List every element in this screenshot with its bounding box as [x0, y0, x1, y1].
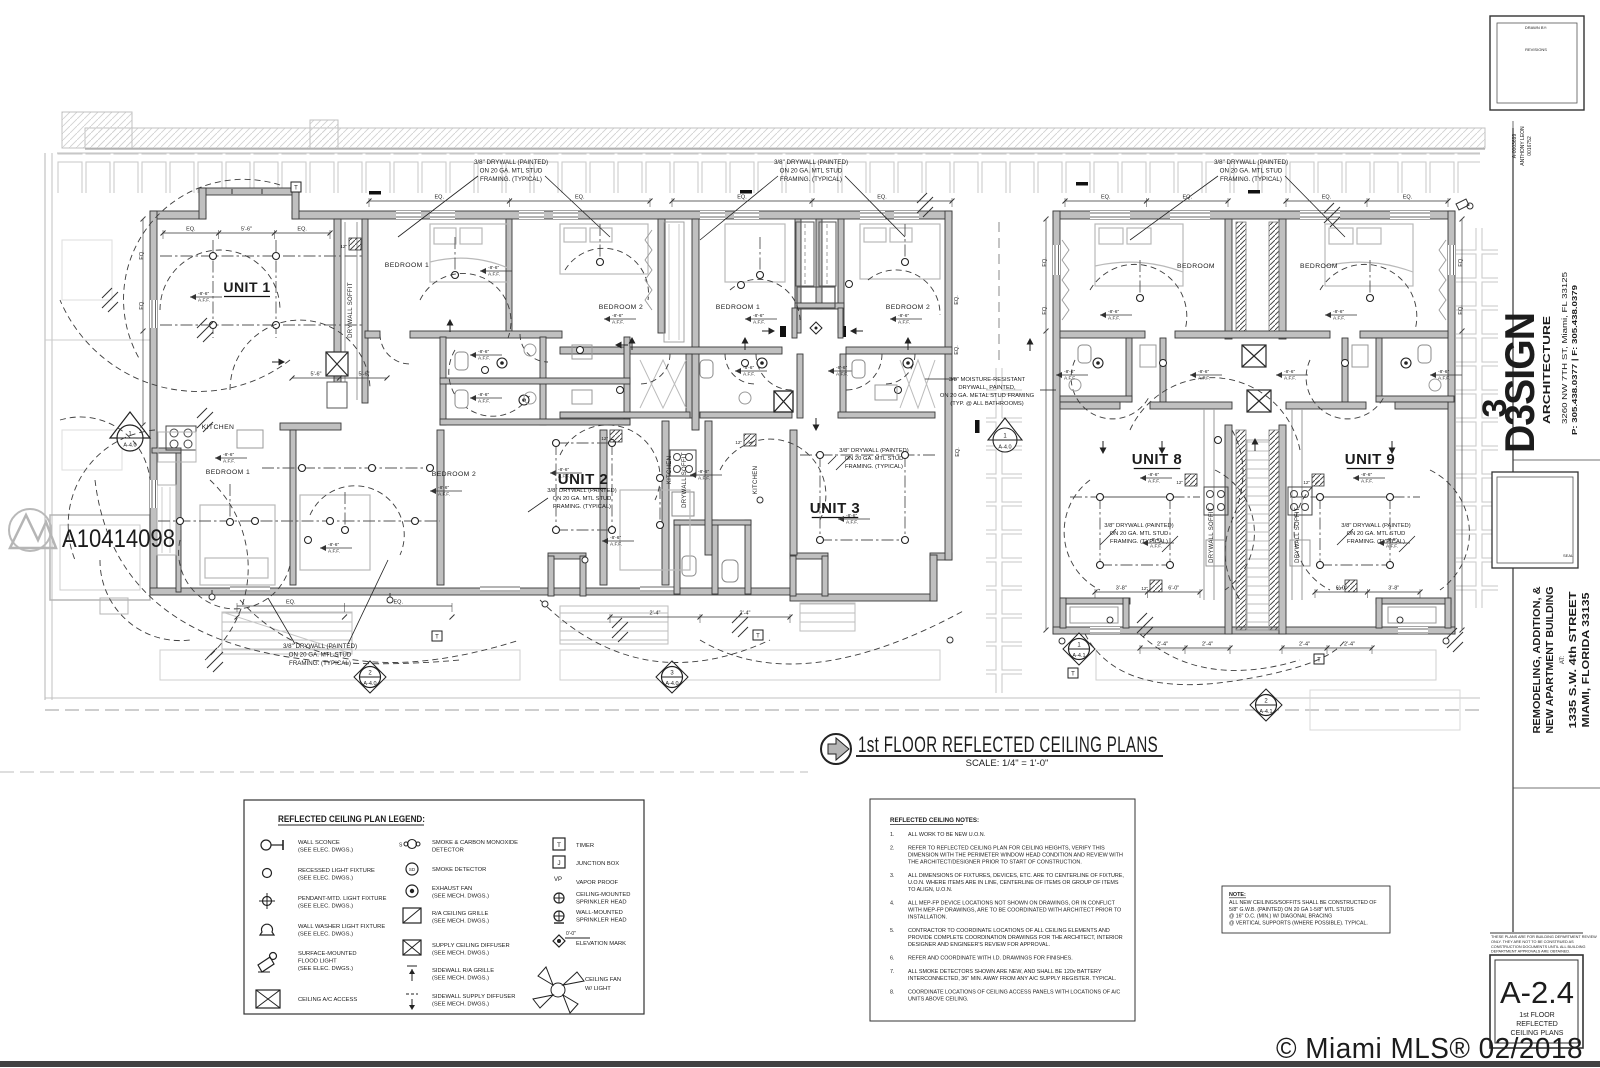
ceiling arc [1064, 480, 1100, 590]
svg-text:3'-8": 3'-8" [1116, 586, 1127, 592]
svg-text:ALL SMOKE DETECTORS SHOWN ARE: ALL SMOKE DETECTORS SHOWN ARE NEW, AND S… [908, 969, 1102, 975]
svg-text:12": 12" [1141, 586, 1148, 591]
ceiling grid unit1 kitchen [158, 520, 440, 522]
svg-text:CEILING-MOUNTED: CEILING-MOUNTED [576, 892, 630, 898]
svg-text:PENDANT-MTD. LIGHT FIXTURE: PENDANT-MTD. LIGHT FIXTURE [298, 896, 387, 902]
svg-text:6'-0": 6'-0" [1168, 586, 1179, 592]
svg-text:-8'-6": -8'-6" [223, 452, 234, 458]
svg-text:U.O.N. WHERE ITEMS ARE IN LIN: U.O.N. WHERE ITEMS ARE IN LINE, CENTERLI… [908, 880, 1119, 886]
svg-text:A.F.F.: A.F.F. [478, 356, 490, 362]
svg-text:A.F.F.: A.F.F. [846, 520, 858, 526]
door swing arc [640, 354, 670, 384]
fan fixture mark [197, 318, 213, 342]
AFF height marker [470, 354, 502, 356]
svg-text:-8'-6": -8'-6" [198, 291, 209, 297]
legend supply diffuser [403, 940, 421, 955]
timer box T [1068, 668, 1078, 678]
svg-text:(SEE ELEC. DWGS.): (SEE ELEC. DWGS.) [298, 932, 353, 938]
wall tick [1076, 182, 1088, 186]
ceiling arc [230, 320, 370, 390]
interior wall bedroom divider [506, 219, 512, 333]
right building right wall [1448, 211, 1455, 634]
svg-text:KITCHEN: KITCHEN [753, 466, 759, 494]
svg-text:A.F.F.: A.F.F. [1148, 479, 1160, 485]
fan fixture mark [1137, 613, 1153, 637]
arc below left bldg 3 [540, 600, 770, 663]
wall tick [740, 190, 752, 194]
svg-text:NOTE:: NOTE: [1229, 892, 1246, 898]
svg-text:-8'-6": -8'-6" [1150, 537, 1161, 543]
svg-text:-8'-6": -8'-6" [836, 365, 847, 371]
closet bottom-left bedroom [176, 450, 181, 592]
bottom bath walls unit3 [674, 520, 680, 594]
pendant fixture [659, 487, 661, 525]
fan fixture mark [917, 193, 933, 217]
pendant fixture [1139, 260, 1141, 298]
vertical dim right bldg left [1045, 219, 1047, 630]
ceiling arc [449, 350, 530, 416]
svg-text:J: J [557, 860, 560, 867]
svg-text:A.F.F.: A.F.F. [1150, 544, 1162, 550]
legend recessed light [263, 869, 272, 878]
svg-text:EQ.: EQ. [297, 227, 307, 233]
svg-text:3/8" MOISTURE-RESISTANT: 3/8" MOISTURE-RESISTANT [949, 377, 1026, 383]
register arrow h [762, 330, 770, 332]
svg-text:SD: SD [409, 867, 416, 872]
LEGEND [244, 800, 644, 1014]
svg-text:AT:: AT: [1560, 656, 1566, 665]
bath walls left unit [1126, 338, 1132, 402]
beds light top row [200, 224, 940, 585]
svg-text:A.F.F.: A.F.F. [488, 272, 500, 278]
AFF height marker [470, 397, 502, 399]
legend ceiling sprinkler [554, 893, 564, 903]
site chimney bump [62, 112, 132, 148]
svg-text:5'-6": 5'-6" [241, 227, 252, 233]
AFF height marker [190, 296, 222, 298]
ceiling arc [1430, 470, 1469, 590]
register arrow [815, 418, 817, 426]
corridor walls [1225, 219, 1232, 339]
svg-text:REFLECTED CEILING PLAN LEGEND:: REFLECTED CEILING PLAN LEGEND: [278, 814, 425, 824]
svg-text:BEDROOM 1: BEDROOM 1 [716, 304, 760, 311]
svg-text:-8'-6": -8'-6" [1284, 369, 1295, 375]
svg-text:-8'-6": -8'-6" [698, 469, 709, 475]
wall left-building left [150, 211, 157, 592]
dimension line top left bldg [369, 200, 650, 202]
svg-text:SPRINKLER HEAD: SPRINKLER HEAD [576, 900, 627, 906]
stoves kitchens [1204, 487, 1312, 566]
AFF height marker [1430, 374, 1462, 376]
AFF height marker [320, 547, 352, 549]
soffit hatch mark [744, 434, 756, 446]
svg-text:BEDROOM 1: BEDROOM 1 [206, 469, 250, 476]
svg-text:5.: 5. [890, 928, 895, 934]
svg-text:6.: 6. [890, 956, 895, 962]
svg-text:EQ.: EQ. [1322, 195, 1332, 201]
svg-text:FRAMING. (TYPICAL): FRAMING. (TYPICAL) [289, 660, 351, 667]
svg-text:(SEE ELEC. DWGS.): (SEE ELEC. DWGS.) [298, 876, 353, 882]
legend junction box [553, 856, 565, 868]
svg-text:FRAMING. (TYPICAL): FRAMING. (TYPICAL) [1220, 176, 1282, 183]
logo circle [9, 509, 51, 551]
smoke detector [657, 475, 664, 482]
faint left fragments [62, 240, 112, 300]
wall tick [369, 191, 381, 195]
window gaps top wall [230, 211, 919, 592]
svg-text:3.: 3. [890, 873, 895, 879]
svg-text:T: T [756, 634, 760, 640]
legend wall washer [260, 924, 274, 935]
svg-text:2.: 2. [890, 846, 895, 852]
exhaust fan [903, 358, 913, 368]
svg-text:(SEE MECH. DWGS.): (SEE MECH. DWGS.) [432, 951, 489, 957]
svg-text:A.F.F.: A.F.F. [898, 320, 910, 326]
pendant fixture [759, 237, 761, 275]
svg-text:(SEE ELEC. DWGS.): (SEE ELEC. DWGS.) [298, 848, 353, 854]
svg-text:-8'-6": -8'-6" [1198, 369, 1209, 375]
exhaust fan [1401, 358, 1411, 368]
AFF height marker [430, 490, 462, 492]
svg-text:A-4.1: A-4.1 [1259, 709, 1272, 715]
svg-text:ARCHITECTURE: ARCHITECTURE [1541, 316, 1553, 424]
svg-text:3/8" DRYWALL (PAINTED): 3/8" DRYWALL (PAINTED) [1104, 523, 1173, 529]
soffit hatch mark [349, 238, 361, 250]
smoke detector [1342, 360, 1349, 367]
section marker 3/A-4.0 [656, 661, 688, 693]
svg-text:-8'-6": -8'-6" [1108, 309, 1119, 315]
svg-text:ON 20 GA. MTL STUD: ON 20 GA. MTL STUD [845, 456, 904, 462]
svg-text:(SEE MECH. DWGS.): (SEE MECH. DWGS.) [432, 976, 489, 982]
svg-text:-8'-6": -8'-6" [488, 265, 499, 271]
legend ceiling fan [533, 967, 584, 1013]
svg-text:A.F.F.: A.F.F. [610, 542, 622, 548]
fan fixture mark [207, 648, 223, 672]
svg-text:T: T [1071, 672, 1075, 678]
parking row top [57, 153, 1480, 193]
register arrow [1254, 443, 1256, 451]
svg-text:WITH MEP-FP DRAWINGS, ARE TO B: WITH MEP-FP DRAWINGS, ARE TO BE COORDINA… [908, 908, 1121, 914]
svg-text:-8'-6": -8'-6" [478, 392, 489, 398]
svg-text:-8'-6": -8'-6" [328, 542, 339, 548]
fan fixture mark [197, 408, 213, 432]
AFF height marker [1378, 542, 1410, 544]
fan fixture mark [1324, 203, 1340, 227]
small note box [1222, 886, 1390, 933]
soffit hatch mark [1150, 580, 1162, 592]
svg-text:UNIT 9: UNIT 9 [1345, 451, 1396, 468]
ceiling arc [720, 439, 826, 520]
svg-text:DRAWN BY:: DRAWN BY: [1525, 25, 1547, 30]
svg-text:3/8" DRYWALL (PAINTED): 3/8" DRYWALL (PAINTED) [474, 159, 548, 166]
svg-text:ONLY. THEY ARE NOT TO BE CONS: ONLY. THEY ARE NOT TO BE CONSTRUED AS [1491, 940, 1574, 944]
unit1 bottom wall [280, 423, 341, 430]
svg-text:EQ.: EQ. [1042, 257, 1048, 267]
timer box T [753, 630, 763, 640]
bathtub box [327, 382, 347, 408]
svg-text:REMODELING, ADDITION, &: REMODELING, ADDITION, & [1532, 587, 1543, 734]
svg-text:© Miami MLS® 02/2018: © Miami MLS® 02/2018 [1276, 1033, 1583, 1065]
left site boundary lines [44, 153, 46, 700]
svg-text:ALL DIMENSIONS OF FIXTURES, DE: ALL DIMENSIONS OF FIXTURES, DEVICES, ETC… [908, 873, 1124, 879]
svg-text:SIDEWALL R/A GRILLE: SIDEWALL R/A GRILLE [432, 968, 494, 974]
vertical dim left bldg [142, 219, 144, 425]
svg-text:12": 12" [1303, 480, 1310, 485]
register arrow [631, 342, 633, 350]
fine print [1490, 932, 1583, 934]
svg-text:REFLECTED: REFLECTED [1516, 1021, 1558, 1028]
svg-text:THE ARCHITECT/DESIGNER PRIOR T: THE ARCHITECT/DESIGNER PRIOR TO START OF… [908, 860, 1082, 866]
site arc left 3 [68, 430, 155, 560]
right building bottom wall [1053, 627, 1455, 634]
porch left [1060, 598, 1130, 604]
beds right building [1095, 224, 1413, 286]
pendant fixture [344, 492, 346, 530]
svg-text:A.F.F.: A.F.F. [836, 372, 848, 378]
soffit hatch mark [1312, 474, 1324, 486]
svg-text:EQ.: EQ. [139, 300, 145, 310]
NOTES [870, 799, 1135, 1021]
bath band fixture line [262, 467, 430, 469]
AFF height marker [550, 472, 582, 474]
svg-text:@ 16" O.C. (MIN.) W/ DIAGONAL: @ 16" O.C. (MIN.) W/ DIAGONAL BRACING [1229, 914, 1332, 920]
svg-text:DRYWALL, PAINTED,: DRYWALL, PAINTED, [958, 385, 1016, 391]
svg-text:VP: VP [554, 877, 562, 883]
svg-text:A-4.0: A-4.0 [665, 681, 678, 687]
svg-text:EQ.: EQ. [954, 295, 960, 305]
svg-text:A.F.F.: A.F.F. [753, 320, 765, 326]
svg-text:A.F.F.: A.F.F. [612, 320, 624, 326]
svg-text:-8'-6": -8'-6" [1148, 472, 1159, 478]
svg-text:SEAL: SEAL [1563, 553, 1574, 558]
pendant fixture [599, 224, 601, 262]
svg-text:DRYWALL SOFFIT: DRYWALL SOFFIT [682, 452, 688, 508]
legend box [244, 800, 644, 1014]
dimension line unit1 kitchen [292, 377, 387, 379]
svg-text:EQ.: EQ. [1042, 305, 1048, 315]
svg-text:2'-4": 2'-4" [1344, 642, 1355, 648]
stair left2 [560, 606, 668, 644]
drywall soffit corridor wall [362, 219, 368, 403]
closet walls [795, 219, 801, 333]
svg-text:FRAMING. (TYPICAL): FRAMING. (TYPICAL) [845, 464, 903, 470]
svg-text:ON 20 GA. MTL STUD: ON 20 GA. MTL STUD [1110, 531, 1169, 537]
ceiling arc [565, 248, 649, 300]
svg-text:REFLECTED CEILING NOTES:: REFLECTED CEILING NOTES: [890, 817, 979, 824]
svg-text:DRYWALL SOFFIT: DRYWALL SOFFIT [348, 282, 354, 338]
svg-text:REFER AND COORDINATE WITH I.D.: REFER AND COORDINATE WITH I.D. DRAWINGS … [908, 956, 1073, 962]
svg-text:A.F.F.: A.F.F. [698, 476, 710, 482]
svg-text:BEDROOM 2: BEDROOM 2 [886, 304, 930, 311]
svg-text:EQ.: EQ. [186, 227, 196, 233]
svg-text:12": 12" [1336, 586, 1343, 591]
svg-text:ALL MEP-FP DEVICE LOCATIONS NO: ALL MEP-FP DEVICE LOCATIONS NOT SHOWN ON… [908, 901, 1116, 907]
AFF height marker [602, 540, 634, 542]
smoke detector [895, 387, 902, 394]
kitchen soffit strips [1203, 409, 1205, 600]
svg-text:WALL-MOUNTED: WALL-MOUNTED [576, 910, 623, 916]
arc below right bldg 2 [1140, 634, 1300, 670]
fan fixture mark [102, 288, 118, 312]
TITLE [821, 732, 1163, 769]
svg-text:JUNCTION BOX: JUNCTION BOX [576, 861, 619, 867]
ceiling arc [1320, 264, 1417, 330]
svg-text:A-4.0: A-4.0 [998, 445, 1011, 451]
AFF height marker [1325, 314, 1357, 316]
svg-text:A-4.0: A-4.0 [363, 681, 376, 687]
svg-text:0'-0": 0'-0" [566, 931, 576, 937]
svg-text:WALL SCONCE: WALL SCONCE [298, 840, 340, 846]
svg-text:A.F.F.: A.F.F. [1064, 376, 1076, 382]
section marker 1/A-4.1 [1063, 633, 1095, 665]
svg-text:3/8" DRYWALL (PAINTED): 3/8" DRYWALL (PAINTED) [774, 159, 848, 166]
sheet number box [1490, 955, 1583, 1048]
pendant fixture [454, 237, 456, 275]
svg-text:12": 12" [601, 436, 608, 441]
register arrow h [620, 344, 628, 346]
svg-text:RECESSED LIGHT FIXTURE: RECESSED LIGHT FIXTURE [298, 868, 375, 874]
svg-text:A.F.F.: A.F.F. [1108, 316, 1120, 322]
smoke detector [846, 281, 853, 288]
AFF height marker [1100, 314, 1132, 316]
smoke detector [577, 347, 584, 354]
svg-text:3'-8": 3'-8" [1388, 586, 1399, 592]
AFF height marker [480, 270, 512, 272]
svg-text:A.F.F.: A.F.F. [1386, 544, 1398, 550]
register arrow h [855, 330, 863, 332]
arc below left bldg 2 [240, 600, 520, 663]
svg-text:1.: 1. [890, 832, 895, 838]
misc small circles [582, 557, 588, 563]
bath cluster walls mid [440, 337, 446, 425]
svg-text:DESIGNER AND ENGINEER'S REVIEW: DESIGNER AND ENGINEER'S REVIEW FOR APPRO… [908, 942, 1050, 948]
exhaust fan [519, 395, 529, 405]
legend flood light [258, 957, 274, 972]
svg-text:3: 3 [1476, 399, 1514, 418]
svg-text:EQ.: EQ. [435, 195, 445, 201]
svg-text:1st FLOOR: 1st FLOOR [1519, 1012, 1554, 1019]
svg-text:A10414098: A10414098 [62, 525, 175, 553]
ANNOT [110, 159, 1462, 721]
svg-text:3/8" DRYWALL (PAINTED): 3/8" DRYWALL (PAINTED) [839, 448, 908, 454]
svg-text:0016752: 0016752 [1527, 136, 1533, 156]
svg-text:3/8" DRYWALL (PAINTED): 3/8" DRYWALL (PAINTED) [1214, 159, 1288, 166]
moisture note leader left [925, 378, 957, 380]
svg-text:12": 12" [735, 440, 742, 445]
svg-text:A-2.4: A-2.4 [1500, 975, 1574, 1010]
title block border [1512, 128, 1514, 932]
svg-text:5'-6": 5'-6" [311, 372, 322, 378]
arc below left bldg 4 [700, 610, 965, 664]
svg-text:UNIT 8: UNIT 8 [1132, 451, 1183, 468]
ceiling arc [1294, 480, 1330, 590]
smoke detector [1215, 437, 1222, 444]
fan fixture mark [1447, 628, 1463, 652]
vertical dim right bldg right [1461, 219, 1463, 630]
ceiling arc [868, 270, 940, 315]
fan fixture mark [732, 613, 748, 637]
AFF height marker [1190, 374, 1222, 376]
smoke detector [742, 360, 749, 367]
svg-text:ELEVATION MARK: ELEVATION MARK [576, 941, 626, 947]
ceiling arc [420, 273, 511, 338]
svg-text:SCALE: 1/4" = 1'-0": SCALE: 1/4" = 1'-0" [966, 758, 1049, 769]
ceiling arc [1130, 378, 1300, 450]
property dashed line [45, 709, 1480, 711]
svg-text:EQ.: EQ. [1458, 257, 1464, 267]
AFF height marker [735, 370, 767, 372]
svg-text:D3SIGN: D3SIGN [1496, 313, 1543, 453]
interior horizontal wall under bedrooms [365, 331, 380, 338]
site arc left 4 [205, 480, 248, 660]
ceiling grid unit3 [820, 454, 905, 456]
ceiling grid unit1 [160, 255, 365, 257]
svg-text:FLOOD LIGHT: FLOOD LIGHT [298, 959, 337, 965]
svg-text:ON 20 GA. MTL STUD: ON 20 GA. MTL STUD [1347, 531, 1406, 537]
svg-text:ON 20 GA. MTL STUD: ON 20 GA. MTL STUD [289, 652, 352, 659]
svg-text:ON 20 GA. MTL STUD: ON 20 GA. MTL STUD [1220, 168, 1283, 175]
ceiling access X-box [326, 352, 348, 376]
svg-text:EQ.: EQ. [955, 447, 961, 457]
svg-text:-8'-6": -8'-6" [753, 313, 764, 319]
svg-text:INTERCONNECTED, 36" MIN. AWAY: INTERCONNECTED, 36" MIN. AWAY FROM ANY A… [908, 976, 1116, 982]
ceiling arc [1071, 360, 1150, 419]
interior wall unit divide [658, 219, 665, 333]
svg-text:EQ.: EQ. [1403, 195, 1413, 201]
svg-text:EQ.: EQ. [737, 195, 747, 201]
svg-text:3260 NW 7TH ST, Miami, FL 3312: 3260 NW 7TH ST, Miami, FL 33125 [1562, 272, 1569, 424]
AFF height marker [1142, 542, 1174, 544]
right building top wall [1053, 211, 1455, 219]
ceiling arc [560, 425, 660, 500]
pendant fixture [1369, 260, 1371, 298]
svg-text:ALL WORK TO BE NEW U.O.N.: ALL WORK TO BE NEW U.O.N. [908, 832, 985, 838]
svg-text:@ VERTICAL SUPPORTS (WHERE POS: @ VERTICAL SUPPORTS (WHERE POSSIBLE). TY… [1229, 920, 1368, 926]
svg-text:1335 S.W. 4th STREET: 1335 S.W. 4th STREET [1568, 592, 1579, 729]
separator lines [1513, 459, 1600, 461]
flood light right bldg [1456, 199, 1473, 210]
legend pendant light [263, 897, 272, 906]
svg-text:-8'-6": -8'-6" [1438, 369, 1449, 375]
site arc left 2 [124, 179, 280, 360]
svg-text:BEDROOM 2: BEDROOM 2 [432, 471, 476, 478]
porch inner rects [1070, 607, 1118, 623]
window zigzag right bldg right [1439, 240, 1446, 320]
AFF height marker [1276, 374, 1308, 376]
site arcs extra [60, 417, 150, 480]
svg-text:1st FLOOR REFLECTED CEILING PL: 1st FLOOR REFLECTED CEILING PLANS [858, 732, 1158, 757]
wall left-building bottom [150, 588, 790, 595]
ceiling arc [310, 486, 404, 555]
svg-text:CEILING FAN: CEILING FAN [585, 977, 621, 983]
svg-text:SMOKE DETECTOR: SMOKE DETECTOR [432, 867, 486, 873]
ceiling arc [179, 540, 290, 609]
svg-text:TO ALIGN, U.O.N.: TO ALIGN, U.O.N. [908, 887, 952, 893]
timer box T [291, 182, 301, 192]
svg-text:EXHAUST FAN: EXHAUST FAN [432, 886, 472, 892]
property dashed line 2 [0, 771, 808, 773]
svg-text:(SEE MECH. DWGS.): (SEE MECH. DWGS.) [432, 919, 489, 925]
svg-text:ON 20 GA. MTL STUD: ON 20 GA. MTL STUD [480, 168, 543, 175]
bottom scan bar [0, 1061, 1600, 1067]
left wall window gaps [150, 300, 157, 328]
svg-text:WALL WASHER LIGHT FIXTURE: WALL WASHER LIGHT FIXTURE [298, 924, 385, 930]
svg-text:W/ LIGHT: W/ LIGHT [585, 986, 611, 992]
svg-text:2'-4": 2'-4" [1202, 642, 1213, 648]
svg-text:REFER TO REFLECTED CEILING PLA: REFER TO REFLECTED CEILING PLAN FOR CEIL… [908, 846, 1105, 852]
svg-text:A.F.F.: A.F.F. [743, 372, 755, 378]
svg-text:5/8" G.W.B. (PAINTED) ON 20 GA: 5/8" G.W.B. (PAINTED) ON 20 GA 1-5/8" MT… [1229, 907, 1354, 913]
